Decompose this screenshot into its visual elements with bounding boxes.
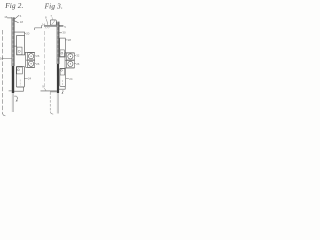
level mark 14 (between figures): [35, 25, 42, 30]
box B2 (fig2 lower gearbox): [16, 66, 24, 87]
svg-text:30: 30: [62, 30, 66, 34]
svg-text:Fig 3.: Fig 3.: [44, 2, 63, 10]
label 26 lower (fig3): [74, 62, 76, 64]
centerline in fig3 B2: [62, 80, 64, 85]
L-bracket under B2 (fig2): [14, 87, 23, 91]
label 10 (left edge): [2, 58, 12, 60]
inner box of fig3 B2: [60, 69, 65, 75]
svg-text:20: 20: [26, 32, 30, 36]
svg-text:Fig 2.: Fig 2.: [4, 2, 23, 10]
platform (fig3): [44, 24, 63, 26]
svg-text:14: 14: [42, 22, 46, 26]
svg-text:16: 16: [4, 15, 8, 19]
mark in inner box B2: [17, 69, 19, 71]
centerline in B2: [19, 80, 21, 87]
L-bracket under fig3 B2: [59, 86, 65, 89]
label 28 (fig3): [65, 39, 67, 41]
tick rail to box B1: [14, 45, 17, 47]
roller housing upper (fig3): [67, 53, 75, 60]
svg-text:26: 26: [76, 62, 80, 66]
leader 9 to floor: [44, 88, 46, 90]
roller housing upper (fig2): [28, 53, 35, 60]
roller housing lower (fig3): [67, 60, 75, 67]
svg-text:26: 26: [36, 62, 40, 66]
top tick + label 16 (fig2): [7, 17, 12, 19]
roller circle lower (fig3): [68, 61, 73, 66]
roller housing lower (fig2): [28, 60, 35, 67]
mark in fig3 inner box B2: [61, 69, 63, 71]
svg-text:24: 24: [28, 77, 32, 81]
tick + label 30 (fig3): [59, 32, 62, 34]
roller bracket fig2: [25, 51, 35, 53]
inner box of B2: [17, 67, 23, 74]
roller circle upper (fig2): [29, 54, 34, 59]
roller circle upper (fig3): [68, 54, 73, 59]
roller circle lower (fig2): [29, 61, 34, 66]
bottom arrow 2 (fig2): [14, 95, 16, 97]
roller bracket fig3: [65, 52, 74, 54]
label 24 (fig3): [66, 78, 69, 80]
left tick at bracket level (fig2): [9, 90, 12, 92]
inner box of fig3 B1: [60, 50, 64, 57]
label 26 lower: [35, 62, 37, 64]
svg-text:18: 18: [20, 20, 24, 24]
box B1 (fig2 upper gearbox): [17, 36, 25, 55]
label 26 upper: [35, 55, 37, 57]
foot curl of dashed line: [3, 113, 6, 116]
horizontal link + label 20 (fig2): [14, 32, 25, 35]
leader to label 4 (fig2 top diagonal): [14, 15, 19, 19]
svg-text:32: 32: [76, 53, 80, 57]
rail fig3: [57, 22, 59, 114]
leader 8 to platform: [47, 19, 48, 25]
tick rail to fig3 B1: [58, 48, 61, 50]
leader to label 18 (fig2 second diagonal): [14, 21, 19, 23]
box B2 (fig3 lower gearbox): [60, 68, 66, 86]
label 32 upper (fig3): [74, 55, 76, 57]
rail fig2: [12, 17, 14, 112]
dashed reference line (fig3 left): [44, 31, 46, 88]
foot curl of pillar: [50, 112, 53, 115]
motor box on platform (fig3): [50, 20, 56, 25]
inner box of B1: [17, 47, 22, 55]
box B1 (fig3 upper gearbox): [60, 38, 66, 57]
mark A in inner box: [18, 50, 20, 52]
svg-text:24: 24: [69, 77, 73, 81]
label 24 (fig2): [24, 77, 27, 79]
pillar dashed below floor (fig3): [49, 92, 51, 111]
floor line (fig3): [41, 90, 57, 92]
svg-text:10: 10: [0, 57, 4, 61]
hatching under platform left: [45, 27, 50, 29]
svg-text:28: 28: [68, 38, 72, 42]
dashed reference line (fig2 left): [2, 30, 4, 114]
mark in fig3 inner box: [61, 52, 63, 54]
bottom arrow 2 (fig3): [62, 90, 65, 93]
svg-text:26: 26: [36, 54, 40, 58]
